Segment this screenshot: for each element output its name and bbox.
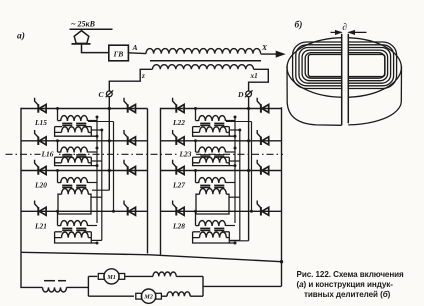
inductive divider T3 — [56, 169, 97, 214]
label ~25kV supply voltage — [71, 20, 96, 29]
wire GV to node A — [128, 52, 146, 55]
svg-text:L21: L21 — [34, 222, 47, 231]
thyristor VD2R — [257, 130, 269, 145]
thyristor VD1R — [257, 98, 269, 113]
air gap slot left edge — [341, 34, 343, 125]
wound tape core rings (top view) — [293, 42, 397, 89]
inductive divider T4 — [55, 210, 99, 245]
svg-text:б): б) — [295, 20, 303, 31]
svg-text:L27: L27 — [172, 181, 185, 190]
svg-text:L22: L22 — [172, 118, 185, 127]
svg-text:L15: L15 — [34, 118, 47, 127]
svg-text:X: X — [261, 43, 268, 52]
figure caption — [297, 270, 405, 299]
node z label — [141, 72, 145, 80]
svg-text:L16: L16 — [41, 149, 54, 158]
winding collector wire 2 right block — [239, 130, 241, 241]
svg-text:D: D — [237, 90, 244, 99]
core inner window rectangle — [308, 54, 385, 76]
inductive divider T7 — [194, 169, 235, 214]
armature reactor 1 coil — [153, 272, 176, 276]
winding collector wire 1 left block — [96, 117, 98, 223]
svg-text:~ 25кВ: ~ 25кВ — [71, 20, 96, 29]
wire x1 to switch D — [249, 69, 269, 91]
node x1 label — [250, 72, 258, 80]
wire switch C down through left block — [92, 97, 111, 190]
autotransformer secondary winding z-x1 — [153, 65, 254, 70]
svg-text:М2: М2 — [143, 294, 153, 301]
thyristor VD4L — [124, 201, 136, 216]
wound tape core outer tape edge — [287, 38, 401, 98]
row wire 1 right block — [161, 108, 282, 110]
thyristor L16 — [35, 130, 47, 145]
right divider block outer left bus — [160, 108, 162, 255]
wire reactor 2 to right vertical — [190, 295, 203, 297]
right block outer right bus — [281, 107, 283, 286]
node D label — [237, 90, 244, 99]
row wire 2 right block — [161, 140, 282, 142]
label L22 — [172, 118, 185, 127]
winding collector wire 2 left block — [101, 130, 103, 241]
svg-text:Рис. 122. Схема включения: Рис. 122. Схема включения — [297, 270, 405, 279]
node C label — [99, 90, 105, 99]
air gap slot right edge — [347, 34, 349, 124]
row wire 3 right block — [161, 170, 282, 172]
left block outer right bus — [147, 109, 149, 254]
inductive divider T2 — [55, 139, 99, 167]
motor М1 — [98, 269, 124, 284]
svg-text:М1: М1 — [106, 274, 116, 281]
thyristor L15 — [35, 98, 47, 113]
label L28 — [172, 222, 185, 231]
thyristor VD2L — [124, 130, 136, 145]
wire switch D down through right block — [230, 97, 250, 241]
switch D — [245, 90, 253, 97]
row wire 2 left block — [21, 140, 148, 142]
armature reactor 2 coil — [167, 292, 190, 296]
inductive divider T6 — [193, 139, 237, 167]
winding collector wire 1 right block — [234, 117, 236, 223]
junction bottom bus right — [280, 260, 283, 263]
label L16 — [41, 149, 59, 158]
autotransformer primary winding A-X — [146, 49, 261, 54]
thyristor VD4R — [257, 201, 269, 216]
switch C — [106, 90, 114, 97]
left feeder down wire — [21, 252, 43, 287]
arrow X to core drawing — [261, 51, 285, 57]
motor branch right vertical — [202, 276, 204, 296]
thyristor L23 — [173, 130, 185, 145]
label L21 — [34, 222, 47, 231]
wire reactor to motor branch — [67, 286, 89, 288]
thyristor L21 — [35, 201, 47, 216]
bottom bus wire — [21, 252, 282, 261]
thyristor L20 — [35, 160, 47, 175]
label a) part marker — [17, 31, 25, 42]
inductive divider T5 — [193, 107, 237, 138]
motor М2 — [136, 289, 162, 303]
row wire 4 left block — [21, 210, 148, 212]
wire pantograph to GV — [82, 44, 109, 53]
row wire 3 left block — [21, 170, 148, 172]
svg-text:z: z — [141, 72, 145, 80]
smoothing reactor coil — [43, 287, 67, 292]
svg-text:L20: L20 — [34, 181, 47, 190]
return wire to right bus — [203, 285, 282, 287]
main breaker GV box — [109, 45, 129, 61]
label b) part marker — [295, 20, 303, 31]
svg-text:A: A — [132, 43, 138, 52]
core drum side wall — [287, 66, 402, 125]
pantograph current collector — [72, 31, 91, 44]
svg-text:а): а) — [17, 31, 25, 42]
inductive divider T8 — [193, 210, 237, 245]
contact wire — [70, 28, 113, 30]
svg-text:L23: L23 — [179, 149, 192, 158]
thyristor L28 — [173, 201, 185, 216]
svg-text:∂: ∂ — [342, 23, 347, 33]
node X label — [261, 43, 268, 52]
winding stubs right block — [226, 116, 253, 241]
wire to motor M1 — [88, 275, 97, 277]
row wire 4 right block — [161, 210, 282, 212]
wire z to switch C — [109, 69, 152, 91]
winding stubs left block — [88, 116, 115, 241]
svg-text:x1: x1 — [250, 72, 258, 80]
svg-text:C: C — [99, 90, 105, 99]
label L23 — [179, 149, 197, 158]
node A label — [132, 43, 138, 52]
dash-dot symmetry axis — [6, 153, 284, 155]
wire to motor M2 — [88, 295, 134, 297]
smoothing reactor core dashes — [44, 280, 66, 282]
gap dimension arrows — [331, 30, 367, 34]
gap width dimension label — [342, 23, 347, 33]
row wire 1 left block — [21, 108, 148, 110]
svg-text:тивных делителей (б): тивных делителей (б) — [304, 290, 391, 299]
air gap slot mask — [342, 34, 347, 125]
svg-text:(а) и конструкция индук-: (а) и конструкция индук- — [297, 280, 394, 289]
thyristor VD3R — [257, 160, 269, 175]
wire M1 to reactor 1 — [125, 275, 153, 277]
wire M2 to reactor 2 — [162, 295, 167, 297]
thyristor L27 — [173, 160, 185, 175]
thyristor L22 — [173, 98, 185, 113]
label L15 — [34, 118, 47, 127]
label L27 — [172, 181, 185, 190]
transformer core line — [150, 60, 261, 62]
label L20 — [34, 181, 47, 190]
left divider block outer left bus — [20, 108, 22, 253]
svg-text:ГВ: ГВ — [113, 50, 124, 59]
motor branch left vertical — [87, 276, 89, 296]
wire reactor 1 to right vertical — [176, 275, 203, 277]
winding collector wire 3 right block — [251, 122, 253, 212]
thyristor VD3L — [124, 160, 136, 175]
inductive divider T1 — [55, 107, 99, 138]
svg-text:L28: L28 — [172, 222, 185, 231]
winding collector wire 3 left block — [113, 122, 115, 212]
thyristor VD1L — [124, 98, 136, 113]
